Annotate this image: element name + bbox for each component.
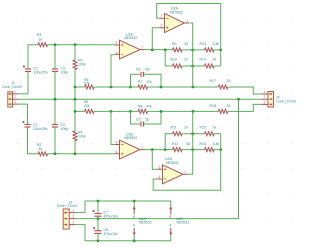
svg-text:6: 6 xyxy=(116,141,118,145)
wire R16 to vert220 xyxy=(214,149,221,151)
resistor R10 xyxy=(173,64,183,68)
wire J2 pin2 rail down xyxy=(238,99,240,218)
wire feedback top xyxy=(157,4,221,67)
wire J1 pin1 to C1 xyxy=(19,72,29,94)
svg-text:470u/16v: 470u/16v xyxy=(104,232,119,236)
wire C7 top xyxy=(97,201,99,213)
node C5 left xyxy=(129,86,132,89)
wire U2A out xyxy=(190,23,193,87)
svg-text:NE5532: NE5532 xyxy=(125,36,138,40)
node R16 right xyxy=(219,148,222,151)
node Vrail U1C pin4 xyxy=(133,239,136,242)
wire R6 row from rail xyxy=(75,110,85,112)
wire R10 to R14 xyxy=(182,65,205,67)
svg-text:1k: 1k xyxy=(213,58,217,62)
svg-text:3.3k: 3.3k xyxy=(213,42,220,46)
wire C8 top xyxy=(97,219,99,231)
svg-text:NE5532: NE5532 xyxy=(177,221,190,225)
resistor R2 xyxy=(38,152,48,156)
svg-text:2: 2 xyxy=(14,95,16,99)
wire R3 to R6 row xyxy=(74,70,76,132)
wire R6 to C6 xyxy=(94,110,138,112)
capacitor C4 xyxy=(52,125,58,128)
svg-text:Conn_01x03: Conn_01x03 xyxy=(276,99,296,103)
svg-text:R18: R18 xyxy=(210,104,216,108)
svg-text:C5: C5 xyxy=(136,68,141,72)
wire C7 bottom xyxy=(97,216,99,218)
node R5-pin2riser xyxy=(110,86,113,89)
svg-text:1k: 1k xyxy=(213,125,217,129)
wire U2A pin3 riser xyxy=(152,28,160,50)
grid dots xyxy=(17,18,293,219)
svg-text:R12: R12 xyxy=(172,142,178,146)
svg-text:NE5532: NE5532 xyxy=(125,136,138,140)
resistor R6 xyxy=(85,109,95,113)
svg-text:47k: 47k xyxy=(146,80,152,84)
resistor R13 xyxy=(205,48,215,52)
wire C2 to R2 xyxy=(28,127,39,154)
svg-text:10: 10 xyxy=(184,125,188,129)
svg-text:8: 8 xyxy=(169,215,171,219)
connector J2 xyxy=(262,90,296,107)
svg-text:1: 1 xyxy=(187,19,189,23)
node out-U2Apin3 riser xyxy=(151,49,154,52)
svg-text:33: 33 xyxy=(184,42,188,46)
op-amp U1B xyxy=(115,133,145,160)
wire R8 to R18 xyxy=(148,110,219,112)
capacitor C6 loop right xyxy=(144,111,161,124)
svg-text:R8: R8 xyxy=(138,104,143,108)
svg-text:100u/25v: 100u/25v xyxy=(34,71,49,75)
capacitor C8 xyxy=(93,227,102,233)
svg-text:3.3k: 3.3k xyxy=(213,142,220,146)
op-amp U2A xyxy=(160,7,189,33)
svg-text:100p: 100p xyxy=(61,71,69,75)
wire U1A out row xyxy=(145,49,173,51)
resistor R4 xyxy=(73,131,77,141)
svg-text:Conn_01x03: Conn_01x03 xyxy=(2,85,22,89)
svg-text:3: 3 xyxy=(264,100,266,104)
svg-text:8: 8 xyxy=(133,215,135,219)
svg-text:4: 4 xyxy=(169,224,171,228)
svg-text:R11: R11 xyxy=(171,125,177,129)
node GND C7C8 xyxy=(97,217,100,220)
wire R14 to vert220 xyxy=(214,65,221,67)
svg-text:1: 1 xyxy=(14,90,16,94)
svg-text:1: 1 xyxy=(264,90,266,94)
wire U1A pin2 riser xyxy=(111,55,115,87)
op-amp U1C power xyxy=(133,201,152,241)
wire riser to R11 row xyxy=(165,134,172,150)
node out-R10 drop xyxy=(164,49,167,52)
wire R18 to J2 pin3 xyxy=(228,104,262,111)
capacitor C1 xyxy=(23,66,31,72)
node R1-R3 xyxy=(74,43,77,46)
svg-text:47k: 47k xyxy=(146,104,152,108)
svg-text:33: 33 xyxy=(227,79,231,83)
resistor R11 xyxy=(173,132,183,136)
node out-U2Bpin5 riser xyxy=(151,148,154,151)
node out-R11 riser xyxy=(164,148,167,151)
wire R2 to U1B pin5 xyxy=(48,153,116,155)
resistor R18 xyxy=(218,109,228,113)
node bus-C3 xyxy=(54,98,57,101)
capacitor C2 xyxy=(23,121,31,127)
svg-text:1k: 1k xyxy=(39,37,43,41)
svg-text:3: 3 xyxy=(161,24,163,28)
wire U2B out xyxy=(188,111,193,174)
svg-text:R16: R16 xyxy=(200,142,206,146)
connector J3 xyxy=(57,200,77,229)
node rail C7 xyxy=(97,200,100,203)
node U2B out vert row1 xyxy=(191,132,194,135)
svg-text:2: 2 xyxy=(73,215,75,219)
svg-text:R13: R13 xyxy=(200,42,206,46)
resistor R17 xyxy=(218,85,228,89)
wire J3 pin3 to V- rail xyxy=(76,225,171,241)
capacitor C5 loop right xyxy=(144,74,161,87)
svg-text:2: 2 xyxy=(116,50,118,54)
svg-text:3: 3 xyxy=(116,41,118,45)
wire C3 to bus xyxy=(54,72,56,100)
svg-text:100u/25v: 100u/25v xyxy=(33,127,48,131)
wire R1 to U1A pin3 xyxy=(48,44,116,46)
resistor R1 xyxy=(38,43,48,47)
resistor R7 xyxy=(138,85,148,89)
node U2A out vert row1 xyxy=(191,49,194,52)
svg-text:R14: R14 xyxy=(200,58,206,62)
wire R7 to R17 xyxy=(148,86,219,88)
node Vrail C8 xyxy=(97,239,100,242)
node R6 rail xyxy=(74,110,77,113)
capacitor C7 xyxy=(93,210,102,216)
wire drop to R10 row xyxy=(165,50,172,66)
wire R13 to vert220 xyxy=(214,49,221,51)
svg-text:100p: 100p xyxy=(61,127,69,131)
wire C4 to R2 row xyxy=(54,127,56,154)
node U2A out to R17 row xyxy=(192,86,195,89)
resistor R12 xyxy=(173,148,183,152)
svg-text:4: 4 xyxy=(133,224,135,228)
node U2B out vert row2 xyxy=(191,148,194,151)
node R2-C4 xyxy=(54,152,57,155)
svg-text:R15: R15 xyxy=(200,125,206,129)
svg-text:R9: R9 xyxy=(172,42,177,46)
svg-text:7: 7 xyxy=(142,146,144,150)
node R5 rail xyxy=(74,86,77,89)
node bus-J2 rail xyxy=(237,98,240,101)
svg-text:2: 2 xyxy=(264,95,266,99)
wire U1B pin6 riser xyxy=(111,111,115,144)
node C6 right xyxy=(160,110,163,113)
wire J1 pin3 to C2 xyxy=(19,104,28,124)
capacitor C3 xyxy=(52,69,58,72)
node R1-C3 xyxy=(54,43,57,46)
wire GND row J3 pin2 xyxy=(76,218,239,220)
wire U1B out row xyxy=(145,149,173,151)
svg-text:R17: R17 xyxy=(210,79,216,83)
svg-text:33: 33 xyxy=(186,142,190,146)
svg-text:1k: 1k xyxy=(39,147,43,151)
node bus-R3 xyxy=(74,98,77,101)
svg-text:1: 1 xyxy=(73,209,75,213)
resistor R3 xyxy=(73,60,77,70)
node R6-pin6riser xyxy=(110,110,113,113)
svg-text:6: 6 xyxy=(159,175,161,179)
resistor R9 xyxy=(173,48,183,52)
svg-text:2: 2 xyxy=(161,14,163,18)
op-amp U1A xyxy=(115,32,145,59)
wire GND bus J1 pin2 to J2 pin2 xyxy=(19,98,263,100)
capacitor C5 xyxy=(141,72,144,77)
svg-text:1: 1 xyxy=(142,46,144,50)
node C5 right xyxy=(160,86,163,89)
svg-text:470u/16v: 470u/16v xyxy=(104,215,119,219)
svg-text:C6: C6 xyxy=(136,117,141,121)
svg-text:NE5532: NE5532 xyxy=(166,161,179,165)
wire R12 to R16 xyxy=(182,149,205,151)
capacitor C5 loop left xyxy=(131,74,141,87)
svg-text:10: 10 xyxy=(184,58,188,62)
svg-text:22k: 22k xyxy=(84,82,90,86)
op-amp U2C power xyxy=(169,207,189,235)
node R2-R4 xyxy=(74,152,77,155)
wire R5 to U1A pin2 riser xyxy=(94,86,138,88)
wire R11 to R15 xyxy=(182,133,205,135)
wire C8 bottom xyxy=(97,233,99,240)
svg-text:100k: 100k xyxy=(78,63,86,67)
resistor R14 xyxy=(205,64,215,68)
wire rail R3 top xyxy=(74,45,76,60)
resistor R8 xyxy=(138,109,148,113)
wire R4 to R2 row xyxy=(74,141,76,154)
svg-text:100k: 100k xyxy=(78,135,86,139)
resistor R16 xyxy=(205,148,215,152)
svg-text:5: 5 xyxy=(159,165,161,169)
capacitor C6 xyxy=(141,122,144,127)
svg-text:NE5532: NE5532 xyxy=(139,221,152,225)
node C6 left xyxy=(129,110,132,113)
resistor R15 xyxy=(205,132,215,136)
svg-text:7: 7 xyxy=(185,170,187,174)
wire rail C4 xyxy=(54,99,56,124)
node U2B out to R18 row xyxy=(192,110,195,113)
op-amp U2B xyxy=(158,157,188,184)
node rail U1C pin8 xyxy=(133,200,136,203)
svg-text:5p: 5p xyxy=(146,117,150,121)
svg-text:R10: R10 xyxy=(171,58,177,62)
wire R15 to vert220 xyxy=(214,133,221,135)
svg-text:NE5532: NE5532 xyxy=(170,10,183,14)
node U2A out vert row2 xyxy=(191,65,194,68)
wire R9 to R13 xyxy=(182,49,205,51)
node R13 right xyxy=(219,49,222,52)
svg-text:Conn_01x03: Conn_01x03 xyxy=(57,204,77,208)
wire R5 row from rail xyxy=(75,86,85,88)
svg-text:R7: R7 xyxy=(138,80,143,84)
wire J3 pin1 to V+ rail xyxy=(76,201,171,213)
svg-text:33: 33 xyxy=(227,104,231,108)
capacitor C6 loop left xyxy=(131,111,141,124)
svg-text:3: 3 xyxy=(14,100,16,104)
wire rail C3 xyxy=(54,45,56,69)
svg-text:5: 5 xyxy=(116,150,118,154)
svg-text:22k: 22k xyxy=(84,104,90,108)
svg-text:3: 3 xyxy=(73,221,75,225)
wire C1 to R1 row xyxy=(28,45,38,69)
svg-text:5p: 5p xyxy=(146,68,150,72)
wire U2B pin5 riser xyxy=(152,150,158,170)
wire R17 to J2 pin1 xyxy=(228,87,262,94)
resistor R5 xyxy=(85,85,95,89)
wire feedback bottom xyxy=(153,134,221,191)
connector J1 xyxy=(2,81,22,107)
